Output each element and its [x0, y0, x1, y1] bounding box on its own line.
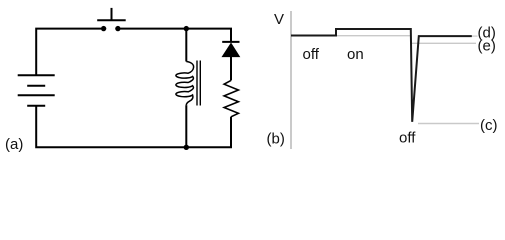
switch S1 pushbutton contact dot right — [115, 26, 120, 31]
svg-text:V: V — [274, 11, 284, 28]
inductor L1 winding (three loops) — [176, 62, 194, 106]
node junction top (inductor tap) — [184, 26, 189, 31]
node junction bottom (inductor tap) — [184, 145, 189, 150]
svg-text:off: off — [303, 46, 320, 63]
gray reference line off-level extension — [336, 35, 411, 37]
wire diode to resistor — [230, 57, 232, 81]
wire inductor bottom lead — [185, 105, 187, 147]
svg-text:(a): (a) — [5, 136, 23, 153]
battery plate long top — [18, 74, 55, 76]
svg-text:(e): (e) — [478, 37, 496, 54]
graph axis V (vertical) — [290, 11, 292, 149]
resistor R1 zigzag — [224, 80, 238, 116]
waveform trace: off level, step up at switch-on, on level, kickback spike, settle level (d) — [291, 29, 472, 122]
wire battery positive lead + top rail left segment — [36, 29, 101, 76]
switch S1 actuator bar — [97, 19, 126, 21]
switch S1 actuator stem — [111, 8, 113, 20]
svg-text:(c): (c) — [480, 117, 498, 134]
wire bottom rail right segment + resistor bottom lead — [186, 117, 231, 148]
svg-text:(b): (b) — [267, 131, 285, 148]
gray reference line to (c) — [418, 123, 479, 125]
switch S1 pushbutton contact dot left — [101, 26, 106, 31]
wire inductor top lead — [185, 29, 187, 62]
wire top rail right segment + right branch drop — [120, 29, 231, 42]
inductor L1 core line left — [196, 61, 198, 106]
battery plate long lower — [18, 94, 55, 96]
gray stub after (d) level — [472, 35, 478, 37]
svg-text:on: on — [347, 46, 364, 63]
battery plate short bottom — [27, 105, 45, 107]
battery plate short upper — [27, 85, 45, 87]
diode D1 cathode bar — [222, 41, 239, 43]
wire battery bottom lead + bottom rail left segment — [36, 106, 186, 148]
svg-text:off: off — [399, 130, 416, 147]
inductor L1 core line right — [199, 61, 201, 106]
diode D1 triangle — [222, 43, 239, 56]
gray reference line to (e) — [411, 42, 476, 44]
